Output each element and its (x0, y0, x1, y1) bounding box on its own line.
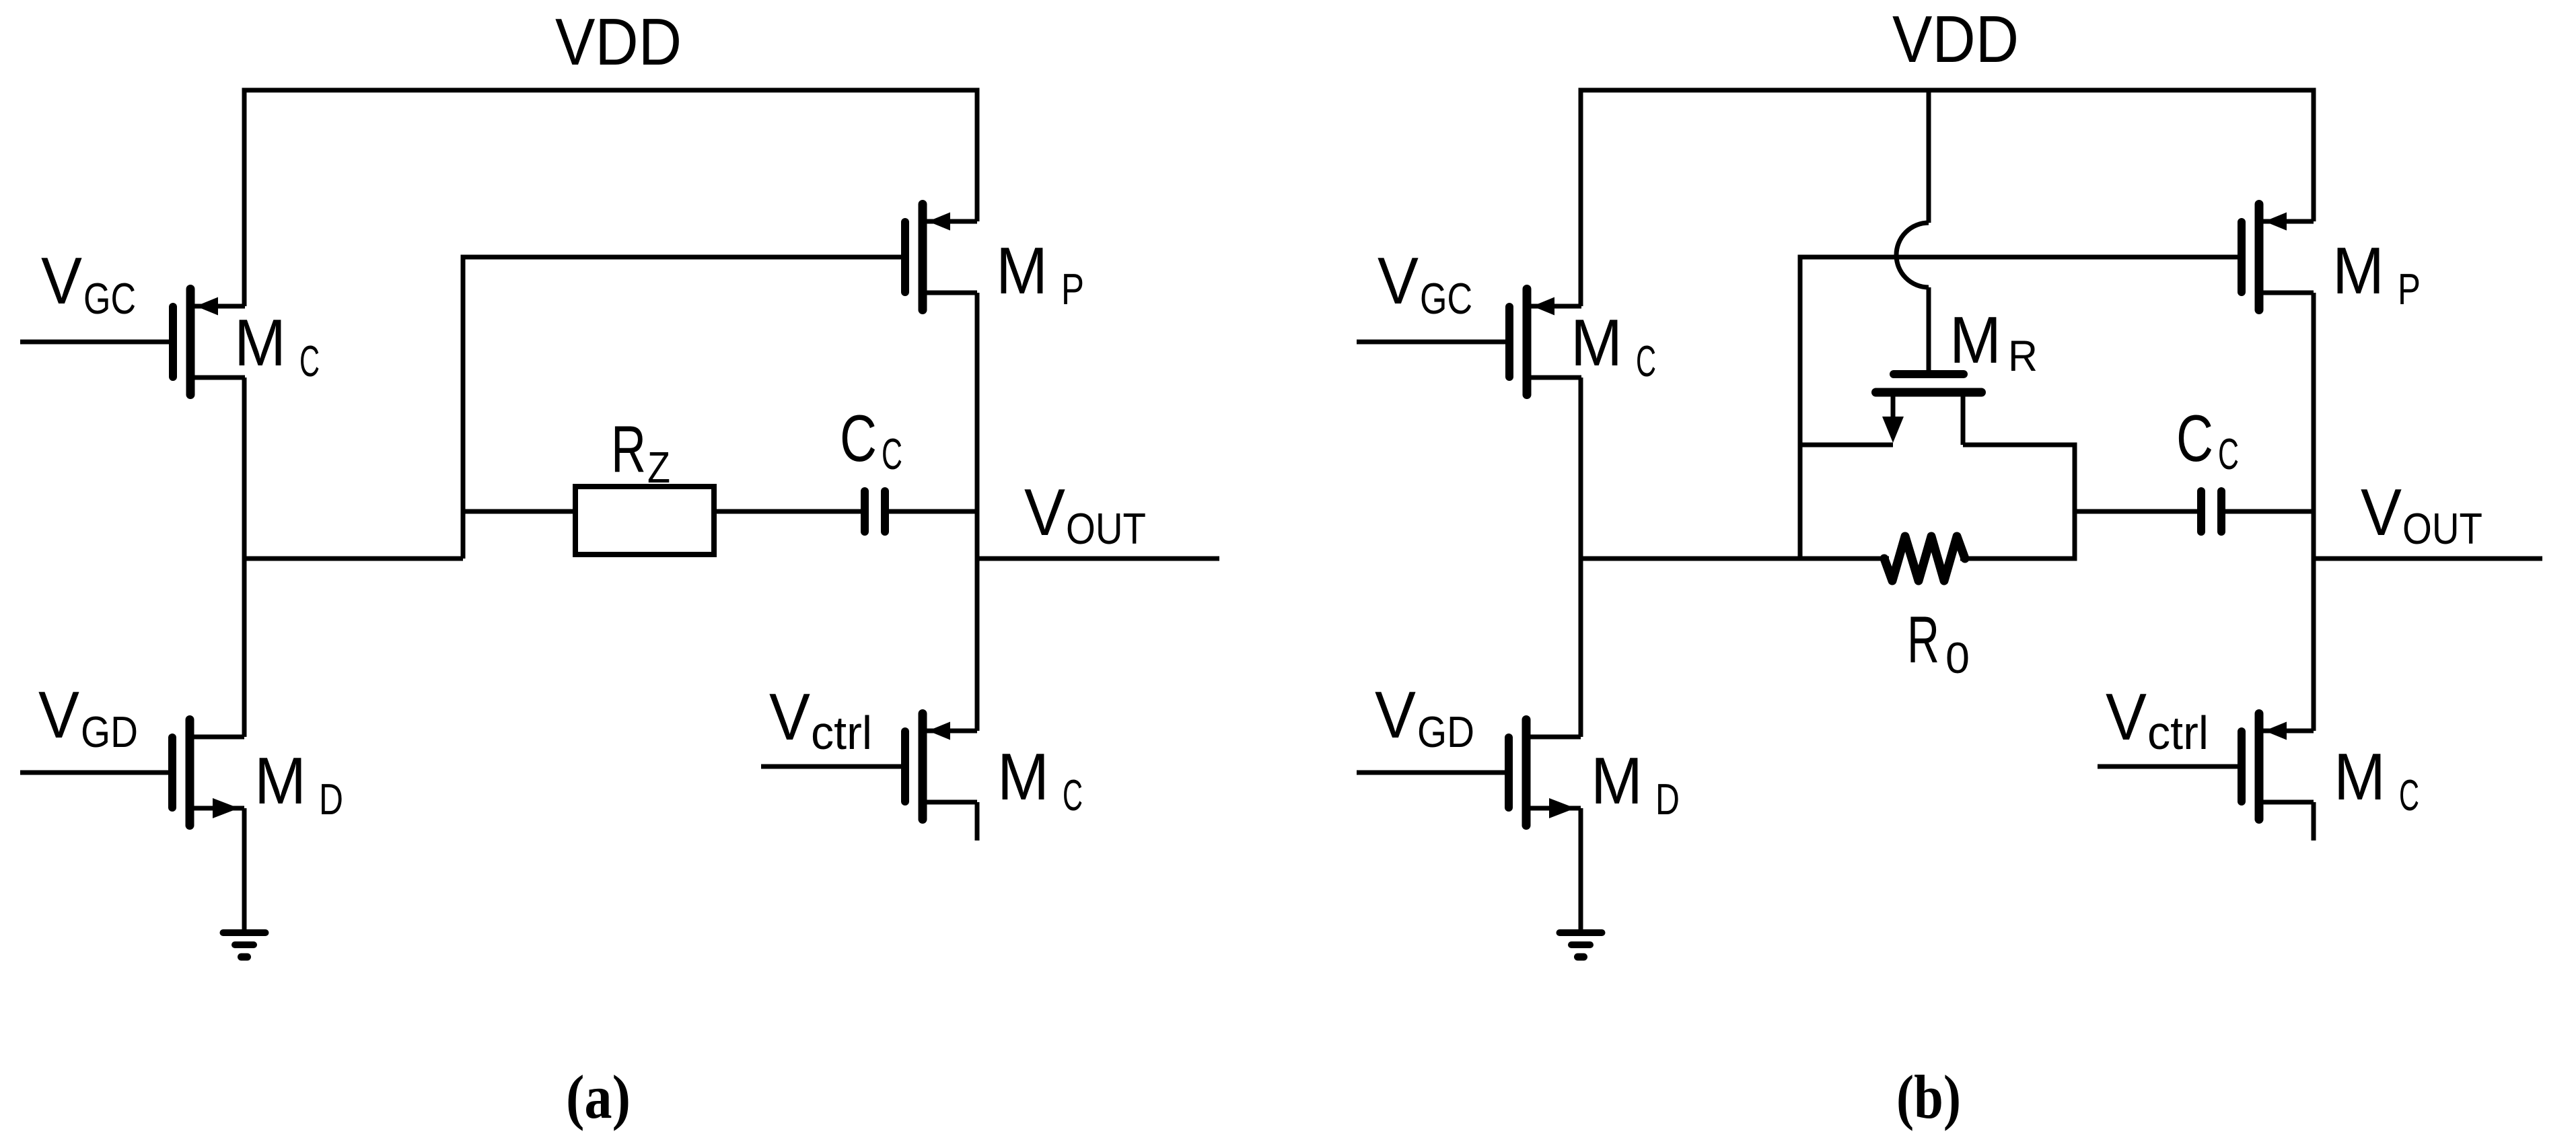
transistor MC (a) cascode PMOS-style (169, 285, 245, 399)
transistor MD (b) driver NMOS-style (1505, 715, 1581, 830)
svg-text:D: D (1655, 775, 1680, 824)
transistor MC (b) cascode PMOS-style (1505, 285, 1581, 399)
label VDD (b) (1892, 2, 2019, 76)
wire feedback vertical (a): node to MP gate (461, 257, 466, 559)
label MD (a) (254, 744, 343, 824)
svg-text:M: M (1571, 306, 1622, 380)
label RZ (611, 412, 670, 492)
svg-text:VDD: VDD (555, 5, 682, 79)
label VOUT (a) (1024, 475, 1146, 553)
wire MR drain line (b) (1963, 443, 2075, 448)
label MC (a, bottom-right) (997, 740, 1083, 820)
capacitor CC (a) (861, 487, 889, 536)
wire RZ left lead (a) (463, 509, 575, 514)
wire left branch mid (a): MC drain to MD drain (242, 378, 247, 737)
transistor MP (a) output PMOS (901, 200, 977, 314)
label MC (a, top-left) (234, 306, 320, 386)
wire CC right lead (a) (889, 509, 977, 514)
wire left branch upper (a): VDD to MC source (242, 88, 247, 307)
wire MP gate lead (b) (1798, 255, 2238, 260)
node A (a): drain node wire (242, 557, 464, 561)
svg-text:(a): (a) (566, 1063, 631, 1131)
wire hop over gate wire (b) (1896, 223, 1929, 287)
svg-text:R: R (1907, 602, 1939, 676)
svg-text:GC: GC (83, 274, 136, 323)
label MP (b) (2332, 234, 2421, 314)
svg-text:VDD: VDD (1892, 2, 2019, 76)
wire VOUT output line (b) (2312, 557, 2543, 561)
wire MC source stub (a) (975, 802, 980, 841)
caption (a) (566, 1063, 631, 1131)
svg-text:M: M (996, 234, 1048, 308)
svg-text:V: V (1024, 475, 1065, 549)
resistor RZ (575, 487, 714, 555)
wire right branch mid (b) (2312, 293, 2316, 731)
wire VGD gate lead (b) (1357, 771, 1505, 775)
svg-text:M: M (234, 306, 286, 380)
wire VDD tap lower (b): to MR gate (1927, 287, 1931, 374)
capacitor CC (b) (2197, 487, 2225, 536)
transistor MD (a) driver NMOS-style (168, 715, 244, 830)
svg-text:C: C (882, 429, 902, 478)
ground (a) (220, 929, 269, 961)
wire VGC gate lead (a) (20, 340, 169, 345)
svg-text:M: M (2332, 234, 2384, 308)
wire left branch lower (b) (1579, 808, 1583, 931)
svg-text:ctrl: ctrl (811, 707, 872, 759)
svg-text:V: V (1375, 678, 1416, 752)
svg-text:M: M (997, 740, 1049, 814)
svg-text:C: C (299, 336, 320, 386)
svg-text:V: V (1378, 244, 1419, 318)
wire left branch mid (b) (1579, 378, 1583, 737)
svg-text:R: R (611, 412, 646, 486)
wire right branch mid (a): MP drain to MC drain (975, 293, 980, 731)
svg-text:OUT: OUT (1066, 504, 1146, 553)
wire Vctrl gate lead (a) (761, 764, 901, 769)
svg-text:M: M (2334, 740, 2386, 814)
svg-text:0: 0 (1945, 633, 1970, 682)
wire MP gate lead (a) (461, 255, 902, 260)
svg-text:C: C (1636, 336, 1656, 386)
svg-text:V: V (41, 244, 82, 318)
svg-text:V: V (2361, 475, 2402, 549)
svg-text:C: C (840, 401, 877, 475)
label VGC (b) (1378, 244, 1472, 323)
label Vctrl (a) (769, 680, 872, 759)
wire VDD rail (b) (1581, 88, 2314, 93)
svg-text:GC: GC (1420, 274, 1472, 323)
wire RZ to CC (a) (713, 509, 861, 514)
wire right branch upper (b) (2312, 88, 2316, 222)
wire VGD gate lead (a) (20, 771, 168, 775)
label MD (b) (1591, 744, 1680, 824)
svg-text:V: V (38, 678, 79, 752)
label VGD (b) (1375, 678, 1474, 756)
label MC (b, top-left) (1571, 306, 1656, 386)
wire VGC gate lead (b) (1357, 340, 1505, 345)
label CC (a) (840, 401, 902, 478)
label VOUT (b) (2361, 475, 2482, 553)
wire MR source line (b) (1798, 443, 1894, 448)
ground (b) (1557, 929, 1606, 961)
label MC (b, bottom-right) (2334, 740, 2419, 820)
svg-text:M: M (1949, 303, 2001, 377)
svg-text:D: D (319, 775, 343, 824)
svg-text:GD: GD (1417, 707, 1474, 756)
wire MC source stub (b) (2312, 802, 2316, 841)
wire left branch lower (a): MD source to ground (242, 808, 247, 931)
wire right loop vertical (b) (2073, 443, 2077, 559)
wire CC right lead (b) (2225, 509, 2314, 514)
svg-text:OUT: OUT (2402, 504, 2482, 553)
wire VOUT output line (a) (975, 557, 1220, 561)
svg-text:ctrl: ctrl (2147, 707, 2209, 759)
transistor MR source terminal with down arrow (1882, 396, 1904, 443)
label CC (b) (2176, 401, 2239, 478)
transistor MR gate bar (1890, 370, 1968, 378)
svg-text:R: R (2008, 331, 2038, 380)
label Vctrl (b) (2106, 680, 2209, 759)
svg-text:V: V (769, 680, 810, 754)
svg-text:C: C (1063, 771, 1083, 820)
resistor R0 zigzag (1884, 536, 1965, 581)
svg-text:V: V (2106, 680, 2147, 754)
svg-text:P: P (2398, 264, 2421, 314)
wire Vctrl gate lead (b) (2098, 764, 2238, 769)
wire VDD tap upper (b) (1927, 88, 1931, 223)
transistor MC (b, bottom-right) control PMOS-style (2238, 709, 2314, 824)
label VGC (a) (41, 244, 136, 323)
svg-text:(b): (b) (1896, 1063, 1961, 1131)
wire left branch upper (b) (1579, 88, 1583, 307)
svg-text:M: M (1591, 744, 1643, 818)
transistor MR channel bar (1871, 388, 1986, 397)
svg-text:GD: GD (81, 707, 138, 756)
svg-text:P: P (1061, 264, 1084, 314)
label R0 (1907, 602, 1970, 682)
svg-text:C: C (2218, 429, 2239, 478)
transistor MC (a, bottom-right) control PMOS-style (901, 709, 977, 824)
svg-text:C: C (2399, 771, 2419, 820)
label MP (a) (996, 234, 1084, 314)
wire feedback vertical (b): node to MP gate (1798, 257, 1803, 559)
node A (b): drain node wire to R0 (1579, 557, 1890, 561)
wire CC left lead (b) (2073, 509, 2198, 514)
caption (b) (1896, 1063, 1961, 1131)
label MR (1949, 303, 2038, 380)
svg-text:C: C (2176, 401, 2213, 475)
label VDD (a) (555, 5, 682, 79)
wire VDD rail (a) (244, 88, 977, 93)
svg-text:Z: Z (647, 443, 670, 492)
svg-text:M: M (254, 744, 306, 818)
transistor MP (b) output PMOS (2238, 200, 2314, 314)
label VGD (a) (38, 678, 138, 756)
wire right branch upper (a): VDD to MP source (975, 88, 980, 222)
transistor MR drain terminal (1961, 396, 1966, 445)
wire R0 right lead (b) (1960, 557, 2077, 561)
